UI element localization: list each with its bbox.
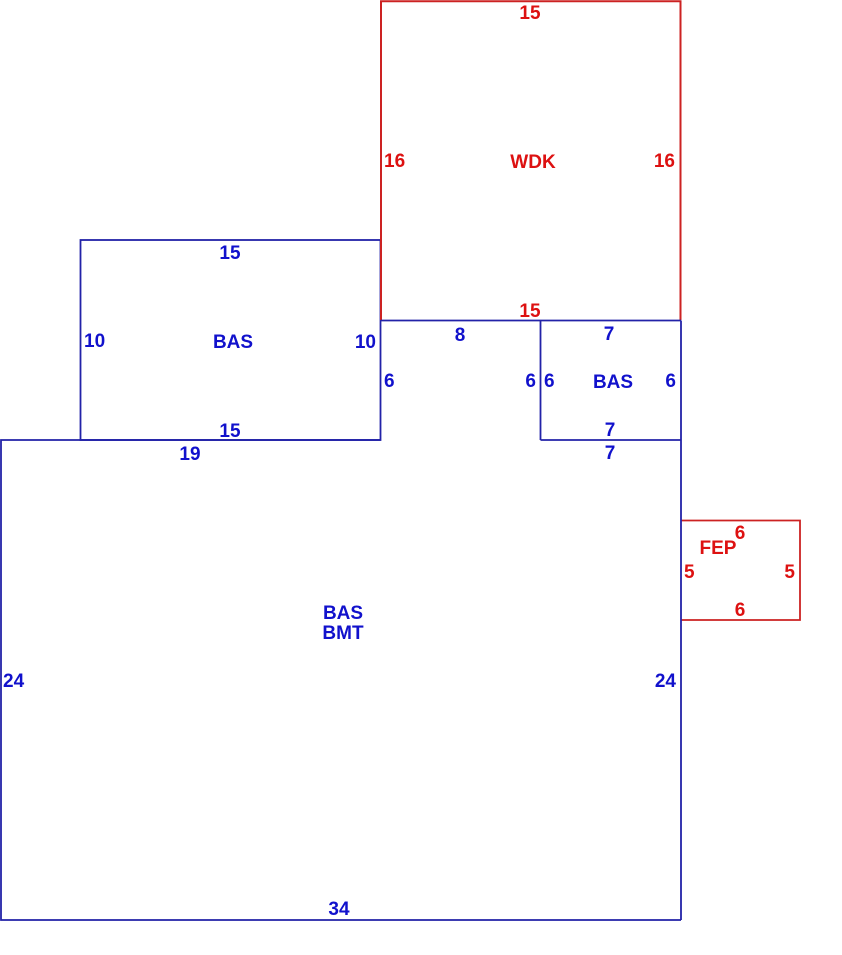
svg-text:6: 6	[384, 371, 395, 392]
svg-text:FEP: FEP	[700, 538, 737, 559]
svg-text:5: 5	[684, 562, 695, 583]
svg-text:15: 15	[219, 421, 241, 442]
svg-text:10: 10	[355, 332, 376, 353]
svg-text:BMT: BMT	[322, 623, 364, 644]
svg-text:34: 34	[328, 899, 350, 920]
room BAS BMT (basement) outline	[1, 440, 681, 920]
wire: right outer wall x=681	[680, 321, 682, 921]
wire: bottom wall of right BAS y=440	[541, 439, 682, 441]
svg-text:10: 10	[84, 331, 105, 352]
wire: vertical wall x=540 between middle area and right BAS	[540, 321, 542, 441]
room BAS (left first-floor) outline	[81, 240, 381, 440]
svg-text:WDK: WDK	[510, 152, 556, 173]
svg-text:16: 16	[384, 151, 405, 172]
svg-text:6: 6	[525, 371, 536, 392]
svg-text:BAS: BAS	[323, 603, 363, 624]
svg-text:6: 6	[735, 600, 746, 621]
svg-text:15: 15	[219, 243, 241, 264]
svg-text:5: 5	[784, 562, 795, 583]
room FEP (enclosed porch) outline	[681, 521, 800, 621]
svg-text:15: 15	[519, 3, 541, 24]
svg-text:6: 6	[544, 371, 555, 392]
svg-text:19: 19	[179, 444, 200, 465]
svg-text:7: 7	[604, 324, 615, 345]
svg-text:16: 16	[654, 151, 675, 172]
svg-text:BAS: BAS	[593, 372, 633, 393]
svg-text:24: 24	[655, 671, 677, 692]
room WDK (wood deck) outline	[381, 1, 681, 320]
svg-text:7: 7	[605, 443, 616, 464]
svg-text:8: 8	[455, 325, 466, 346]
svg-text:15: 15	[519, 301, 541, 322]
svg-text:7: 7	[605, 420, 616, 441]
wire: blue horizontal wall y=320 under deck	[381, 320, 681, 322]
svg-text:6: 6	[665, 371, 676, 392]
svg-text:BAS: BAS	[213, 332, 253, 353]
svg-text:24: 24	[3, 671, 25, 692]
